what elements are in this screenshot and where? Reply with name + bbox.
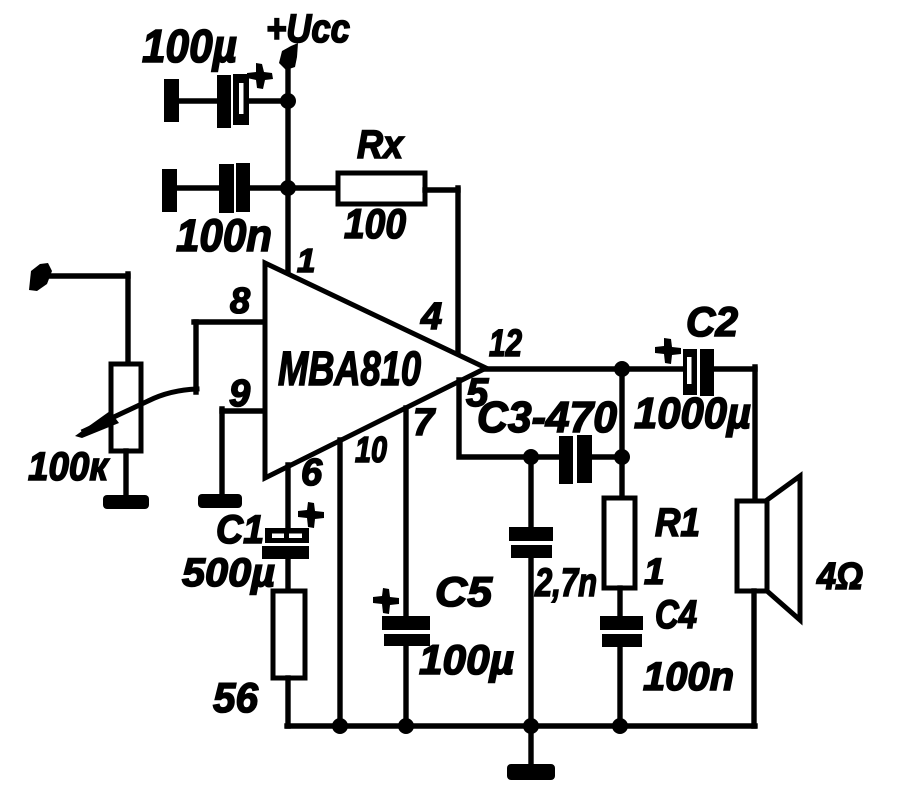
svg-text:8: 8 [230, 280, 250, 321]
svg-text:C1: C1 [216, 508, 264, 552]
svg-text:2,7n: 2,7n [534, 561, 597, 605]
svg-text:4: 4 [420, 296, 442, 338]
svg-text:MBA810: MBA810 [278, 343, 421, 396]
svg-text:1: 1 [297, 242, 315, 279]
svg-text:12: 12 [489, 323, 522, 365]
svg-text:1000µ: 1000µ [634, 389, 751, 438]
svg-text:+Ucc: +Ucc [266, 7, 350, 51]
svg-text:C3-470: C3-470 [477, 393, 618, 442]
svg-text:4Ω: 4Ω [816, 556, 863, 598]
svg-text:C5: C5 [435, 568, 493, 615]
svg-text:C4: C4 [655, 593, 697, 637]
svg-text:100µ: 100µ [142, 20, 237, 72]
svg-text:Rx: Rx [357, 123, 405, 167]
svg-text:R1: R1 [655, 501, 700, 545]
svg-text:1: 1 [644, 551, 665, 592]
svg-text:100µ: 100µ [419, 636, 514, 683]
svg-text:100к: 100к [28, 445, 110, 489]
svg-text:100n: 100n [176, 210, 272, 261]
svg-text:100: 100 [344, 200, 406, 247]
svg-text:7: 7 [413, 402, 436, 444]
svg-text:100n: 100n [643, 655, 734, 699]
svg-text:56: 56 [213, 674, 259, 721]
svg-text:9: 9 [229, 373, 250, 415]
svg-text:C2: C2 [686, 298, 738, 345]
svg-text:6: 6 [301, 452, 323, 494]
svg-text:10: 10 [355, 429, 387, 470]
svg-text:500µ: 500µ [182, 551, 275, 595]
